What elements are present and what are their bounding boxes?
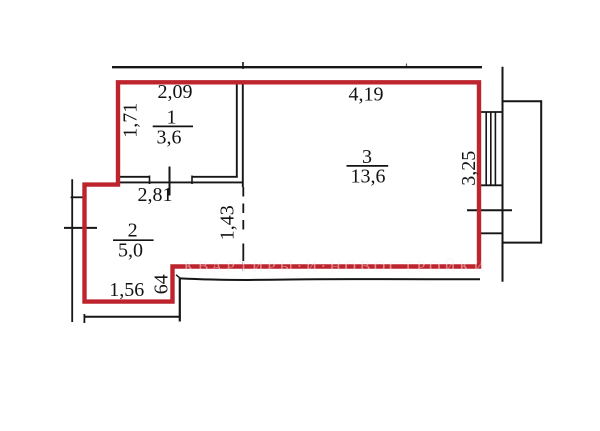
room1 bottom wall lower line <box>120 181 244 183</box>
svg-text:2: 2 <box>128 220 138 242</box>
window glazing line 1 <box>485 112 487 185</box>
svg-text:1,71: 1,71 <box>119 103 141 138</box>
room 2 underline <box>113 239 154 241</box>
svg-text:КВАРТИРЫ·И·НОВОСТРОЙКИ: КВАРТИРЫ·И·НОВОСТРОЙКИ <box>184 257 489 276</box>
balcony right <box>540 100 542 243</box>
door opening jamb left <box>149 176 151 185</box>
right wall short line <box>481 232 502 234</box>
step corner overshoot <box>176 275 181 279</box>
svg-text:64: 64 <box>151 274 173 294</box>
svg-text:13,6: 13,6 <box>351 166 386 188</box>
dimension tick on room1 wall <box>169 167 171 196</box>
partition wall room1/room3 left line <box>236 83 238 178</box>
left outer wall line <box>71 179 73 322</box>
svg-text:2,09: 2,09 <box>158 81 193 103</box>
cross tick left wall <box>64 227 97 229</box>
top outer wall line <box>112 66 482 68</box>
bottom-left outer wall line <box>84 316 180 318</box>
bottom-left wall stub <box>83 314 85 323</box>
svg-text:1,43: 1,43 <box>216 205 238 240</box>
window glazing line 2 <box>490 112 492 185</box>
right wall tick <box>467 209 512 211</box>
balcony top <box>503 100 542 102</box>
svg-text:3,25: 3,25 <box>458 151 480 186</box>
bottom outer wall wavy line <box>180 278 480 280</box>
right building wall line <box>502 67 504 282</box>
svg-text:3,6: 3,6 <box>157 127 182 149</box>
svg-text:2,81: 2,81 <box>138 184 173 206</box>
red apartment outline <box>85 82 480 301</box>
room 3 underline <box>347 165 389 167</box>
step outer wall vertical <box>179 278 181 322</box>
window top cap <box>481 111 502 113</box>
small tick left wall upper <box>71 196 84 198</box>
room1 bottom wall upper line left part <box>120 176 150 178</box>
tick on top wall at partition <box>242 62 244 69</box>
room 1 underline <box>153 125 193 127</box>
room1 bottom wall upper line right part <box>192 176 238 178</box>
door opening jamb right <box>191 176 193 185</box>
svg-text:1: 1 <box>167 107 177 129</box>
svg-text:4,19: 4,19 <box>349 84 384 106</box>
svg-text:3: 3 <box>362 146 372 168</box>
window bottom cap <box>481 184 502 186</box>
partition wall room1/room3 right line <box>242 83 244 187</box>
svg-text:5,0: 5,0 <box>118 240 143 262</box>
dashed boundary hall/room3 <box>242 187 244 271</box>
faint tick on top wall <box>406 64 408 68</box>
window glazing line 3 <box>494 112 496 185</box>
balcony bottom <box>503 242 542 244</box>
svg-text:1,56: 1,56 <box>109 279 144 301</box>
